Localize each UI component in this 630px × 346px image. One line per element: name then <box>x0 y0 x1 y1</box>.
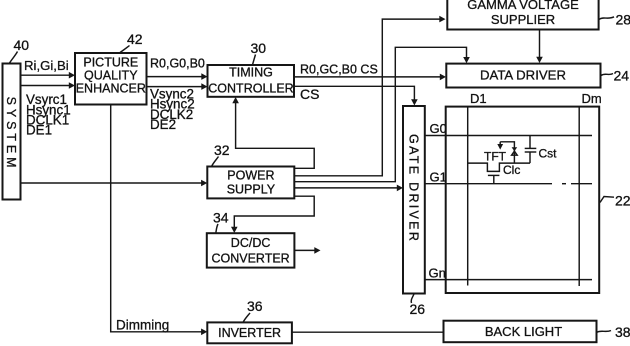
svg-text:G0: G0 <box>430 121 447 136</box>
svg-text:32: 32 <box>214 142 230 158</box>
wire: DC/DC converter output arrow <box>294 247 320 254</box>
svg-text:SYSTEM: SYSTEM <box>4 97 18 172</box>
svg-text:42: 42 <box>127 31 143 47</box>
svg-text:GATE DRIVER: GATE DRIVER <box>407 134 421 243</box>
svg-text:TIMING: TIMING <box>229 66 273 80</box>
node Dm: data line label and vertical wire <box>579 91 602 286</box>
box: INVERTER <box>207 322 292 343</box>
wire: inverter to back light <box>292 331 444 333</box>
label 26 <box>410 294 426 317</box>
wire: CS from timing controller down into gate driver top <box>294 86 418 106</box>
label 42 <box>120 31 143 53</box>
svg-text:CONVERTER: CONVERTER <box>211 251 289 265</box>
svg-text:38: 38 <box>615 324 630 340</box>
svg-text:40: 40 <box>14 37 30 53</box>
box: LCD panel 22 <box>446 107 600 293</box>
capacitor Clc: liquid crystal capacitor to gate line G1 <box>488 163 520 184</box>
wire: Ri,Gi,Bi from SYSTEM to PICTURE QUALITY ENHANCER <box>21 58 76 79</box>
wire: power supply to gate driver <box>294 185 403 192</box>
wire: pixel node from D1 to TFT and Cst <box>468 163 530 171</box>
svg-text:34: 34 <box>213 210 229 226</box>
label 38 <box>597 324 630 340</box>
svg-text:INVERTER: INVERTER <box>218 326 281 340</box>
box: SYSTEM <box>3 64 21 200</box>
svg-text:Gn: Gn <box>429 266 446 281</box>
svg-text:28: 28 <box>616 12 630 28</box>
wire: sync bundle Vsync2/Hsync2/DCLK2/DE2 to timing controller <box>147 83 208 132</box>
wire: R0,G0,B0 from enhancer to timing controller <box>147 56 208 80</box>
wire: sync bundle Vsyrc1/Hsync1/DCLK1/DE1 from SYSTEM to enhancer <box>21 82 76 137</box>
wire: gamma voltage supplier down to data driver <box>536 30 543 64</box>
svg-text:BACK LIGHT: BACK LIGHT <box>485 324 562 339</box>
svg-text:ENHANCER: ENHANCER <box>76 82 146 96</box>
svg-text:24: 24 <box>614 67 630 83</box>
node D1: data line label and vertical wire <box>468 91 487 286</box>
box: DC/DC CONVERTER <box>207 233 295 267</box>
box: POWER SUPPLY <box>207 167 294 199</box>
svg-text:QUALITY: QUALITY <box>84 69 138 83</box>
svg-text:30: 30 <box>251 40 267 56</box>
label 28 <box>599 12 630 28</box>
svg-text:CONTROLLER: CONTROLLER <box>208 82 293 96</box>
node Gn: gate line <box>425 266 592 281</box>
wire: SYSTEM to POWER SUPPLY <box>21 180 208 187</box>
svg-text:Ri,Gi,Bi: Ri,Gi,Bi <box>24 58 69 73</box>
wire: power supply up to timing controller <box>232 97 314 168</box>
svg-text:DE2: DE2 <box>150 117 176 132</box>
svg-text:36: 36 <box>247 298 263 314</box>
svg-text:D1: D1 <box>470 91 487 106</box>
svg-text:DC/DC: DC/DC <box>231 236 271 250</box>
label 32 <box>212 142 230 167</box>
label 30 <box>251 40 267 65</box>
box: GATE DRIVER <box>403 106 425 294</box>
label 22 <box>600 193 630 209</box>
wire: power supply up to gamma voltage supplier <box>294 16 445 176</box>
box: BACK LIGHT <box>444 321 597 343</box>
svg-text:TFT: TFT <box>484 149 507 163</box>
box: GAMMA VOLTAGE SUPPLIER (top cut off) <box>447 0 598 30</box>
box: PICTURE QUALITY ENHANCER <box>75 53 147 105</box>
label 36 <box>243 298 263 322</box>
svg-text:R0,G0,B0: R0,G0,B0 <box>150 56 205 70</box>
transistor TFT: pixel switch symbol <box>484 142 517 164</box>
box: TIMING CONTROLLER <box>208 65 295 97</box>
wire: R0,GC,B0 CS from timing controller to data driver <box>294 63 446 81</box>
svg-text:Clc: Clc <box>503 163 520 177</box>
label 34 <box>213 210 229 233</box>
svg-text:PICTURE: PICTURE <box>83 56 138 70</box>
svg-text:SUPPLIER: SUPPLIER <box>491 12 555 27</box>
node G1: gate line with dash-dot right end <box>425 169 592 184</box>
wire: power supply down to DC/DC converter <box>231 196 314 233</box>
label 24 <box>601 67 629 83</box>
label 40 <box>10 37 30 63</box>
svg-text:DE1: DE1 <box>26 123 52 138</box>
svg-text:Dm: Dm <box>582 91 602 106</box>
svg-text:Cst: Cst <box>539 147 558 161</box>
box: DATA DRIVER <box>446 64 600 88</box>
svg-text:CS: CS <box>300 86 319 102</box>
wire: Dimming from enhancer down to inverter <box>111 105 208 336</box>
svg-text:G1: G1 <box>430 169 447 184</box>
svg-text:DATA DRIVER: DATA DRIVER <box>480 67 566 82</box>
svg-text:SUPPLY: SUPPLY <box>227 182 276 196</box>
capacitor Cst: storage capacitor <box>525 136 557 164</box>
wire: power supply up over to data driver top <box>294 47 469 181</box>
svg-text:Dimming: Dimming <box>116 317 169 332</box>
svg-text:POWER: POWER <box>227 168 274 182</box>
svg-text:26: 26 <box>410 301 426 317</box>
svg-text:GAMMA VOLTAGE: GAMMA VOLTAGE <box>467 0 579 12</box>
svg-text:22: 22 <box>615 193 630 209</box>
svg-text:R0,GC,B0 CS: R0,GC,B0 CS <box>300 63 378 77</box>
node G0: gate line from gate driver across panel <box>425 121 592 136</box>
